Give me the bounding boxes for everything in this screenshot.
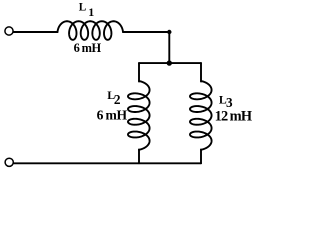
inductor L1 [58,21,124,40]
terminal (input, top-left) [5,27,13,35]
wire: L2 top stub [138,63,140,81]
terminal (input, bottom-left) [5,158,13,166]
wire: vertical drop from top corner to junction [168,32,170,63]
inductor L2 [128,81,150,150]
node dot at top corner [167,30,171,34]
junction node dot [167,60,172,65]
wire: middle horizontal bus [139,62,201,64]
inductor L3 [190,81,212,150]
wire: L3 bottom stub / right end of bottom bus [200,150,202,164]
wire: L1 to top-right corner [123,31,169,33]
svg-text:6 mH: 6 mH [74,41,102,55]
svg-text:1: 1 [88,5,94,19]
wire: L3 top stub [200,63,202,81]
svg-text:12 mH: 12 mH [215,109,252,125]
svg-text:L: L [79,1,86,13]
wire: top-left terminal to L1 [13,31,57,33]
svg-text:6 mH: 6 mH [97,108,128,123]
wire: L2 bottom stub [138,150,140,164]
svg-text:2: 2 [114,92,121,107]
wire: bottom bus [14,162,201,164]
